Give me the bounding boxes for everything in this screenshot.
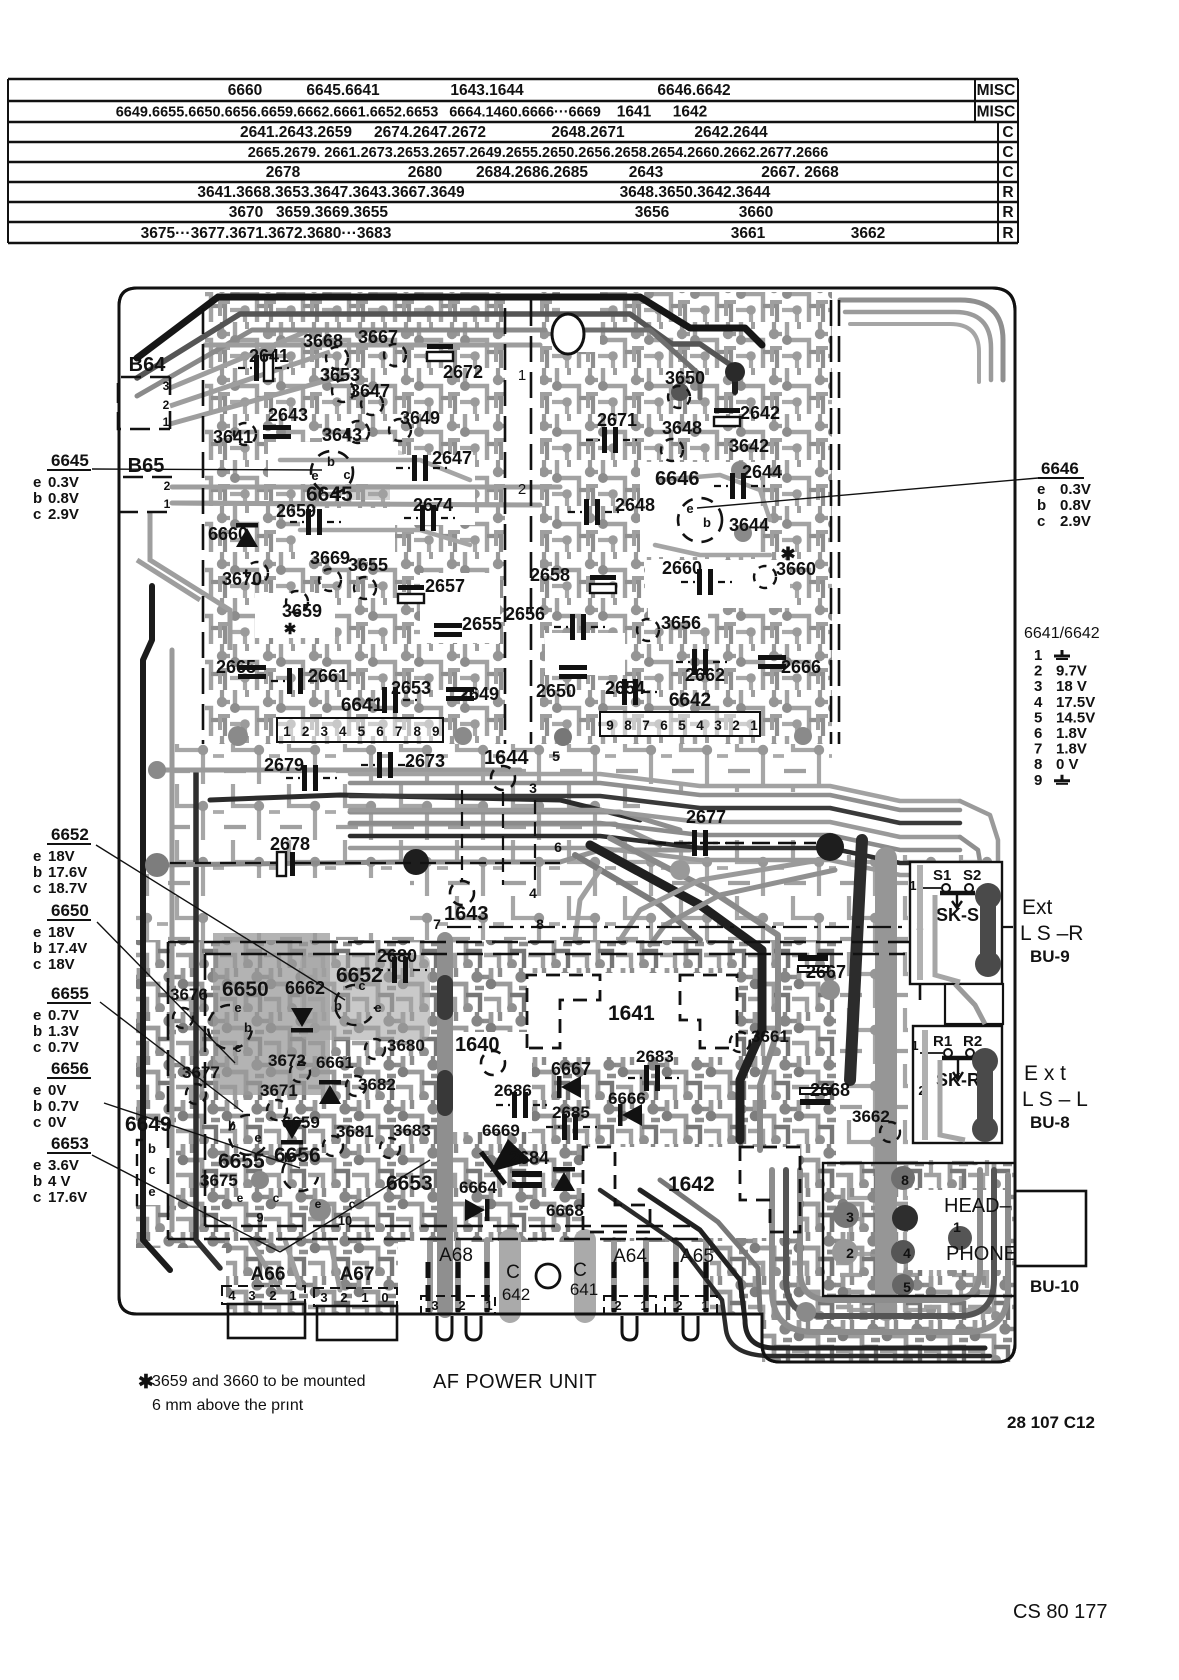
svg-text:c: c (33, 956, 41, 973)
svg-text:c: c (148, 1162, 155, 1177)
svg-text:b: b (33, 864, 42, 881)
wire (350, 848, 960, 875)
svg-text:3648.3650.3642.3644: 3648.3650.3642.3644 (620, 184, 771, 201)
svg-text:3647: 3647 (350, 381, 390, 401)
transistor 3668 (326, 347, 348, 369)
svg-text:3661: 3661 (731, 225, 766, 242)
transistor 3659 (286, 591, 308, 613)
svg-text:1: 1 (953, 1219, 961, 1235)
svg-text:17.5V: 17.5V (1056, 694, 1095, 711)
diode 6668 (553, 1172, 575, 1191)
pad (820, 980, 840, 1000)
svg-text:6653: 6653 (51, 1134, 89, 1153)
pad (892, 1274, 914, 1296)
svg-text:A64: A64 (613, 1246, 647, 1267)
svg-text:5: 5 (552, 748, 560, 764)
svg-text:4: 4 (529, 885, 537, 901)
svg-text:642: 642 (502, 1285, 530, 1304)
svg-text:4 V: 4 V (48, 1173, 71, 1190)
wire (157, 862, 404, 865)
svg-text:2648: 2648 (615, 495, 655, 515)
wire (350, 783, 960, 810)
transistor 6652 (335, 985, 375, 1025)
svg-text:6649.6655.6650.6656.6659.6662.: 6649.6655.6650.6656.6659.6662.6661.6652.… (116, 105, 439, 121)
wire (143, 586, 170, 1270)
svg-text:B65: B65 (128, 455, 165, 477)
svg-text:2667: 2667 (806, 962, 846, 982)
wire (350, 823, 960, 850)
svg-text:SK-R: SK-R (936, 1070, 980, 1090)
BU-10 connector tab (1015, 1191, 1086, 1266)
IC 6641 pin row (277, 718, 443, 742)
pad (891, 1240, 915, 1264)
svg-text:6641: 6641 (341, 695, 384, 716)
svg-text:1: 1 (750, 718, 758, 733)
svg-text:18 V: 18 V (1056, 678, 1087, 695)
svg-text:3: 3 (714, 718, 722, 733)
trace region (136, 940, 836, 1314)
svg-text:6666: 6666 (608, 1089, 646, 1108)
svg-text:9: 9 (256, 1210, 263, 1225)
wire (655, 545, 770, 555)
svg-text:8: 8 (624, 718, 632, 733)
svg-text:9: 9 (432, 724, 440, 739)
svg-text:S2: S2 (963, 867, 981, 884)
wire (850, 840, 862, 1080)
capacitor 2642 (714, 408, 740, 413)
svg-text:2685: 2685 (552, 1103, 590, 1122)
svg-text:3659: 3659 (282, 601, 322, 621)
svg-text:6: 6 (660, 718, 668, 733)
svg-text:e: e (33, 924, 41, 941)
transistor 3643 (347, 421, 369, 443)
transistor 3683 (380, 1138, 400, 1158)
svg-text:6642: 6642 (669, 690, 711, 711)
svg-text:2: 2 (458, 1298, 465, 1313)
svg-text:BU-10: BU-10 (1030, 1277, 1079, 1296)
svg-text:2677: 2677 (686, 807, 726, 827)
IC 6642 pin row (600, 712, 760, 736)
svg-text:8: 8 (901, 1172, 909, 1188)
svg-text:C: C (573, 1260, 587, 1281)
svg-text:6649: 6649 (125, 1113, 172, 1136)
svg-text:6652: 6652 (51, 825, 89, 844)
svg-text:18.7V: 18.7V (48, 880, 87, 897)
svg-text:3: 3 (529, 780, 537, 796)
svg-text:7: 7 (433, 916, 441, 932)
svg-text:3655: 3655 (348, 555, 388, 575)
svg-text:3: 3 (846, 1209, 854, 1225)
capacitor 2679 (302, 765, 307, 791)
svg-text:4: 4 (1034, 694, 1043, 711)
wire (845, 312, 991, 380)
transistor 3660 (754, 566, 776, 588)
svg-text:2659: 2659 (276, 501, 316, 521)
svg-text:3680: 3680 (387, 1036, 425, 1055)
transistor 6650 (208, 1005, 252, 1049)
svg-text:3656: 3656 (635, 204, 670, 221)
switch box SK-S (910, 862, 1002, 984)
svg-text:1: 1 (701, 1298, 708, 1313)
svg-text:A67: A67 (340, 1264, 375, 1285)
svg-text:2667. 2668: 2667. 2668 (761, 164, 839, 181)
svg-text:2665: 2665 (216, 657, 256, 677)
svg-text:3662: 3662 (851, 225, 885, 242)
transistor 6646 (678, 498, 722, 542)
svg-text:6641/6642: 6641/6642 (1024, 625, 1100, 642)
board outline redraw (119, 288, 1015, 1362)
capacitor 2680 (392, 957, 397, 983)
wire (430, 850, 690, 862)
svg-text:6: 6 (376, 724, 384, 739)
wire (650, 870, 835, 945)
diode 6660 (236, 528, 258, 547)
wire (640, 1190, 985, 1348)
svg-text:1640: 1640 (455, 1034, 500, 1056)
svg-text:2641.2643.2659: 2641.2643.2659 (240, 124, 352, 141)
svg-text:6 mm above the prınt: 6 mm above the prınt (152, 1397, 304, 1414)
svg-text:2: 2 (340, 1290, 347, 1305)
transistor 3670 (246, 562, 268, 584)
capacitor 2668 (800, 1088, 830, 1094)
svg-text:b: b (33, 490, 42, 507)
wire (575, 855, 700, 940)
svg-text:17.4V: 17.4V (48, 940, 87, 957)
svg-text:1641: 1641 (608, 1002, 655, 1025)
svg-text:6660: 6660 (208, 524, 248, 544)
svg-text:6655: 6655 (51, 984, 89, 1003)
svg-text:3681: 3681 (336, 1122, 374, 1141)
svg-text:3: 3 (320, 724, 328, 739)
svg-text:R1: R1 (933, 1033, 952, 1050)
svg-text:641: 641 (570, 1280, 598, 1299)
wire (350, 774, 960, 801)
svg-text:6656: 6656 (51, 1059, 89, 1078)
svg-text:2: 2 (1034, 663, 1042, 680)
capacitor 2660 (697, 569, 702, 595)
wire (437, 1078, 453, 1108)
capacitor 2683 (644, 1065, 649, 1091)
svg-text:6652: 6652 (336, 964, 383, 987)
switch box SK-R (913, 1026, 1002, 1143)
transistor 3642 (731, 461, 749, 479)
svg-text:1.3V: 1.3V (48, 1023, 79, 1040)
svg-text:3670: 3670 (229, 204, 263, 221)
wire (732, 368, 738, 392)
pad (671, 383, 689, 401)
svg-text:2643: 2643 (629, 164, 664, 181)
svg-text:0.7V: 0.7V (48, 1039, 79, 1056)
transistor 3661 (730, 1032, 750, 1052)
svg-text:7: 7 (1034, 741, 1042, 758)
svg-text:6: 6 (1034, 725, 1042, 742)
svg-text:6646: 6646 (655, 468, 700, 490)
svg-text:3659 and 3660 to be mounte: 3659 and 3660 to be mounted (152, 1373, 366, 1390)
svg-text:2673: 2673 (405, 751, 445, 771)
svg-text:2642: 2642 (740, 403, 780, 423)
svg-text:2650: 2650 (536, 681, 576, 701)
svg-text:2686: 2686 (494, 1081, 532, 1100)
svg-text:R2: R2 (963, 1033, 982, 1050)
pad (403, 849, 429, 875)
svg-text:2655: 2655 (462, 614, 502, 634)
transistor 3656 (637, 619, 659, 641)
wire (560, 330, 700, 398)
svg-text:18V: 18V (48, 848, 75, 865)
svg-text:c: c (33, 1189, 41, 1206)
svg-text:3656: 3656 (661, 613, 701, 633)
wire (840, 300, 1003, 380)
svg-text:3668: 3668 (303, 331, 343, 351)
svg-text:e: e (254, 1130, 261, 1145)
wire (170, 650, 175, 1230)
svg-text:4: 4 (696, 718, 704, 733)
svg-text:17.6V: 17.6V (48, 1189, 87, 1206)
diode 6661 (319, 1085, 341, 1104)
transistor 6645 (311, 451, 353, 493)
svg-text:2668: 2668 (810, 1080, 850, 1100)
svg-text:BU-9: BU-9 (1030, 947, 1070, 966)
svg-text:1: 1 (163, 415, 170, 429)
svg-text:18V: 18V (48, 956, 75, 973)
transistor 3672 (290, 1062, 310, 1082)
svg-text:3671: 3671 (260, 1081, 298, 1100)
svg-text:e: e (374, 1000, 381, 1015)
transistor 3649 (389, 419, 411, 441)
capacitor 2671 (602, 427, 607, 453)
svg-text:e: e (33, 1007, 41, 1024)
wire (614, 1240, 706, 1310)
capacitor 2686 (512, 1092, 517, 1118)
pad (554, 728, 572, 746)
capacitor 2678 (277, 852, 286, 876)
svg-text:c: c (273, 1191, 280, 1205)
svg-text:2: 2 (163, 398, 170, 412)
svg-text:6645: 6645 (51, 451, 89, 470)
mounting hole (552, 314, 584, 354)
transistor 3650 (668, 386, 690, 408)
transistor 3653 (332, 380, 354, 402)
svg-text:3660: 3660 (739, 204, 773, 221)
capacitor 2653 (382, 687, 387, 713)
wire (499, 1240, 521, 1312)
svg-text:1642: 1642 (673, 104, 707, 121)
capacitor 2667 (798, 955, 828, 961)
wire (137, 314, 735, 378)
transistor 3641 (234, 423, 256, 445)
wire (574, 1240, 596, 1312)
svg-text:e: e (33, 1157, 41, 1174)
wire (590, 845, 762, 1140)
pad (145, 853, 169, 877)
svg-text:5: 5 (1034, 709, 1042, 726)
svg-text:5: 5 (903, 1279, 911, 1295)
transistor 3671 (267, 1100, 287, 1120)
transistor 3682 (346, 1076, 366, 1096)
transistor 3667 (384, 344, 406, 366)
major trace trunks (137, 297, 1008, 1356)
svg-text:8: 8 (536, 916, 544, 932)
transistor 3662 (880, 1122, 900, 1142)
white clearances (505, 292, 540, 744)
svg-text:2662: 2662 (685, 665, 725, 685)
wire (350, 836, 960, 863)
connector B64 (118, 377, 170, 429)
wire (330, 1240, 340, 1290)
svg-text:b: b (148, 1141, 156, 1156)
svg-text:4: 4 (339, 724, 347, 739)
svg-text:c: c (1037, 513, 1045, 530)
wire (350, 824, 660, 845)
svg-text:1: 1 (289, 1288, 296, 1303)
svg-text:6669: 6669 (482, 1121, 520, 1140)
svg-text:0.8V: 0.8V (1060, 497, 1091, 514)
svg-text:b: b (33, 1023, 42, 1040)
pad (309, 1199, 331, 1221)
svg-text:2: 2 (675, 1298, 682, 1313)
svg-text:1644: 1644 (484, 747, 529, 769)
svg-text:6668: 6668 (546, 1201, 584, 1220)
svg-text:3661: 3661 (751, 1027, 789, 1046)
svg-text:5: 5 (678, 718, 686, 733)
transistor 3681 (323, 1136, 343, 1156)
wire (250, 1240, 280, 1290)
capacitor 2647 (412, 455, 417, 481)
capacitor 2656 (570, 614, 575, 640)
svg-text:2680: 2680 (377, 946, 417, 966)
svg-text:3642: 3642 (729, 436, 769, 456)
svg-text:6662: 6662 (285, 978, 325, 998)
svg-text:0.8V: 0.8V (48, 490, 79, 507)
svg-text:6646.6642: 6646.6642 (657, 82, 730, 99)
wire (160, 768, 520, 773)
svg-text:A66: A66 (251, 1264, 286, 1285)
svg-text:3: 3 (431, 1298, 438, 1313)
svg-text:3662: 3662 (852, 1107, 890, 1126)
svg-text:B64: B64 (129, 354, 167, 376)
svg-text:R: R (1002, 184, 1013, 201)
svg-text:c: c (33, 1039, 41, 1056)
svg-text:2684.2686.2685: 2684.2686.2685 (476, 164, 588, 181)
wire (620, 860, 820, 940)
svg-text:2674.2647.2672: 2674.2647.2672 (374, 124, 486, 141)
svg-text:3659.3669.3655: 3659.3669.3655 (276, 204, 388, 221)
svg-text:6650: 6650 (51, 901, 89, 920)
svg-text:3670: 3670 (222, 569, 262, 589)
capacitor 2661 (287, 668, 292, 694)
capacitor 2674 (420, 505, 425, 531)
svg-text:b: b (334, 998, 342, 1013)
svg-text:2658: 2658 (530, 565, 570, 585)
svg-text:AF POWER UNIT: AF POWER UNIT (433, 1371, 597, 1393)
svg-text:b: b (33, 940, 42, 957)
svg-text:2678: 2678 (270, 834, 310, 854)
trace region (762, 1164, 1015, 1362)
svg-text:3: 3 (320, 1290, 327, 1305)
svg-text:2661: 2661 (308, 666, 348, 686)
wire (960, 837, 980, 862)
svg-text:6: 6 (554, 839, 562, 855)
pad ring 1644 (491, 766, 515, 790)
svg-text:2643: 2643 (268, 405, 308, 425)
wire (437, 940, 453, 1310)
svg-text:6660: 6660 (228, 82, 262, 99)
svg-text:L S – L: L S – L (1022, 1088, 1088, 1111)
svg-text:2657: 2657 (425, 576, 465, 596)
svg-text:6667: 6667 (551, 1059, 591, 1079)
copper trace maze texture (136, 292, 1015, 1362)
transistor 6655 (229, 1115, 268, 1155)
wire (285, 1240, 300, 1285)
svg-text:2648.2671: 2648.2671 (551, 124, 625, 141)
svg-text:1: 1 (283, 724, 291, 739)
capacitor 2662 (692, 649, 697, 675)
wire (800, 1170, 980, 1300)
svg-text:6661: 6661 (316, 1053, 354, 1072)
svg-text:5: 5 (358, 724, 366, 739)
svg-text:1: 1 (1034, 647, 1042, 664)
svg-text:8: 8 (1034, 756, 1042, 773)
pad (148, 761, 166, 779)
wire (600, 1190, 990, 1356)
wire (137, 297, 762, 358)
svg-text:2684: 2684 (509, 1148, 549, 1168)
svg-text:2647: 2647 (432, 448, 472, 468)
svg-text:e: e (1037, 481, 1045, 498)
pad (228, 726, 248, 746)
svg-text:7: 7 (395, 724, 403, 739)
IC 1642 (583, 1147, 800, 1232)
transistor 3680 (365, 1039, 385, 1059)
wire (172, 503, 540, 505)
capacitor 2641 (254, 355, 259, 381)
svg-text:1: 1 (164, 497, 171, 511)
svg-text:e: e (237, 1191, 244, 1205)
diode 6667 (561, 1076, 581, 1098)
diode 6666 (622, 1104, 642, 1126)
svg-text:2: 2 (269, 1288, 276, 1303)
svg-text:b: b (244, 1020, 252, 1035)
svg-text:6664.1460.6666···6669: 6664.1460.6666···6669 (449, 105, 601, 121)
svg-text:6659: 6659 (282, 1113, 320, 1132)
PCB board outline (119, 288, 1015, 1362)
svg-text:0V: 0V (48, 1082, 66, 1099)
headphone box (823, 1163, 1015, 1296)
svg-text:2.9V: 2.9V (1060, 513, 1091, 530)
svg-text:1.8V: 1.8V (1056, 725, 1087, 742)
pad ring 1640 (481, 1051, 505, 1075)
svg-text:C: C (1002, 164, 1013, 181)
capacitor 2673 (377, 752, 382, 778)
svg-text:1: 1 (911, 1038, 918, 1053)
trace region (345, 450, 405, 500)
svg-text:e: e (33, 474, 41, 491)
transistor 3669 (319, 569, 341, 591)
svg-text:0: 0 (381, 1290, 388, 1305)
capacitor 2650 (559, 665, 587, 670)
wire (196, 772, 220, 1268)
svg-text:PHONE: PHONE (946, 1243, 1017, 1265)
svg-text:1643: 1643 (444, 903, 489, 925)
trace region (136, 744, 836, 940)
svg-text:9: 9 (1034, 772, 1042, 789)
pad (794, 727, 812, 745)
svg-text:2: 2 (164, 479, 171, 493)
svg-text:A65: A65 (680, 1246, 714, 1267)
wire (205, 343, 540, 348)
svg-text:3675···3677.3671.3672.3680···3: 3675···3677.3671.3672.3680···3683 (141, 225, 392, 242)
svg-text:2649: 2649 (459, 684, 499, 704)
